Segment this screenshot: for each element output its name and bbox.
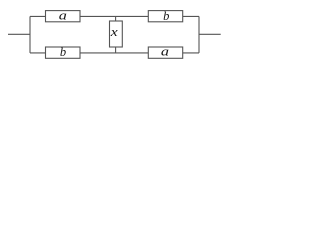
wire left lead <box>8 33 30 35</box>
svg-text:x: x <box>110 25 119 39</box>
wire bottom branch <box>30 52 199 54</box>
svg-text:a: a <box>59 9 67 23</box>
wire center bridge vertical <box>115 16 117 53</box>
svg-text:a: a <box>161 45 169 59</box>
svg-text:b: b <box>163 9 169 23</box>
wire right lead <box>199 33 221 35</box>
resistor b (top-right) <box>148 9 182 23</box>
wire right junction vertical <box>198 16 200 53</box>
wire top branch <box>30 15 199 17</box>
resistor b (bottom-left) <box>46 45 81 59</box>
resistor a (bottom-right) <box>148 45 182 59</box>
resistor a (top-left) <box>46 9 81 23</box>
resistor x (center bridge) <box>110 21 123 47</box>
wire left junction vertical <box>29 16 31 53</box>
svg-text:b: b <box>60 45 66 59</box>
